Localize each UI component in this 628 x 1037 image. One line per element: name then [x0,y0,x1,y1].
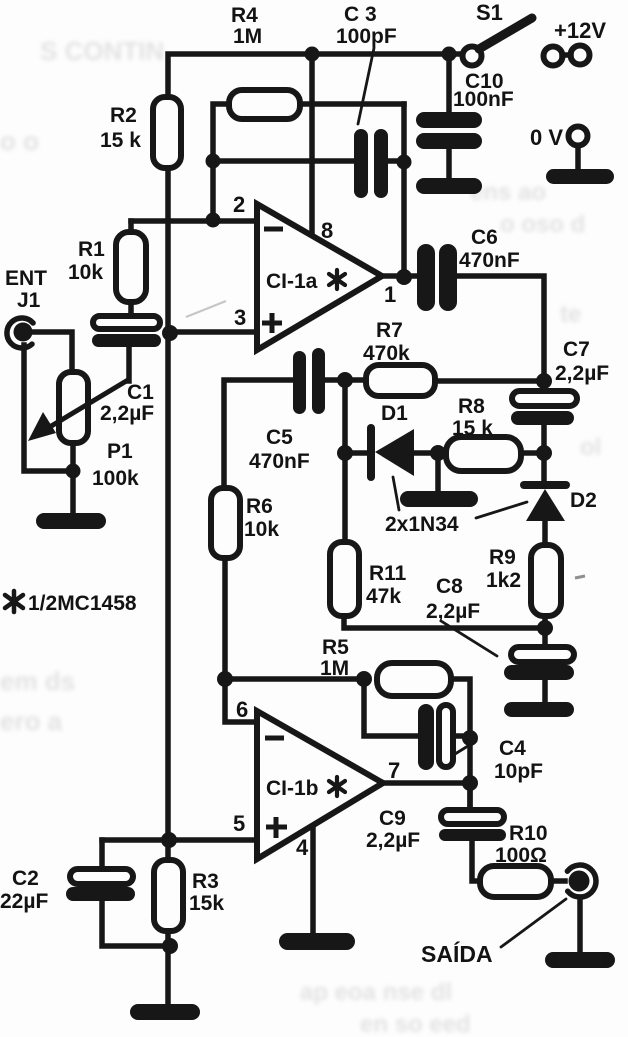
svg-text:0 V: 0 V [530,125,563,150]
svg-text:C5: C5 [266,426,293,449]
wire R3 bottom to ground [165,931,171,1006]
potentiometer P1 [28,372,139,490]
node junction C3 right [397,155,412,170]
node junction at pin8 tap [305,47,320,62]
resistor R6 [211,488,240,558]
svg-text:C1: C1 [127,381,154,404]
svg-text:C4: C4 [499,737,526,760]
resistor R5 [377,663,451,696]
node junction R7/C6/C7 [536,373,552,389]
node junction D1 anode / ground stub [430,445,446,461]
wire ground stub [435,453,441,492]
wire inverting node to C3 left plate [213,158,354,164]
svg-text:C7: C7 [563,338,590,361]
svg-text:em ds: em ds [0,666,75,696]
node junction R8/C7/D2 [536,445,552,461]
svg-text:15 k: 15 k [100,129,141,152]
wire R8 right [521,450,544,456]
wire R11 bottom to node [344,616,545,628]
wire J1 sleeve to ground node [24,345,73,471]
artifact faint pencil line near pin3 [186,301,226,317]
svg-text:ero a: ero a [0,706,63,736]
ground input [36,513,106,529]
pointer label to D2 [476,502,527,518]
artifact small dash near R9 [575,576,585,578]
capacitor C9 [366,807,506,852]
pointer SAIDA to jack [501,899,566,947]
wire C3 right plate to output column [388,158,404,164]
wire rectifier left column [342,380,348,542]
wire pin8 supply line [309,54,315,237]
capacitor C3 [336,3,397,198]
svg-text:7: 7 [388,758,400,783]
wire P1 bottom [70,443,76,471]
svg-text:R7: R7 [376,319,403,342]
resistor R4 [229,90,300,119]
node junction R5 left [356,671,372,687]
node junction pin7 [462,775,478,791]
wire C5 right [325,377,345,383]
svg-text:100pF: 100pF [336,25,397,48]
capacitor C1 [92,316,161,425]
capacitor C2 [0,867,135,913]
wire R6 bottom to pin6 [225,558,254,722]
op-amp CI-1b [257,711,383,859]
wire pin6 node to R5 [225,676,364,682]
svg-text:10pF: 10pF [494,760,543,783]
svg-text:100nF: 100nF [453,88,514,111]
op-amp CI-1a [257,204,382,350]
svg-text:R3: R3 [192,870,219,893]
svg-text:ENT: ENT [5,267,47,290]
svg-text:100Ω: 100Ω [495,844,547,867]
jack J1 [5,267,47,348]
resistor R2 [153,97,181,168]
ground below 0V [546,169,614,184]
svg-text:470k: 470k [363,342,410,365]
pointer C3 [358,48,374,124]
ground below C10 [416,178,482,194]
node junction C5/R7 [337,372,353,388]
svg-text:ol: ol [580,434,601,461]
wire R4 left lead down to inverting node [213,104,229,162]
svg-text:R2: R2 [110,104,137,127]
capacitor C5 [249,348,325,473]
svg-text:1M: 1M [233,25,262,48]
ground rectifier [400,491,478,507]
svg-text:22µF: 22µF [0,890,48,913]
wire C6 to C7 column [457,276,544,391]
resistor R8 [446,437,521,471]
svg-text:1: 1 [384,282,396,307]
svg-text:P1: P1 [107,440,133,463]
svg-text:D2: D2 [570,489,597,512]
svg-text:+12V: +12V [554,18,606,43]
terminal +12V plug [544,18,607,66]
capacitor C6 [417,226,520,311]
svg-text:1M: 1M [320,657,349,680]
svg-text:2: 2 [233,192,245,217]
svg-text:C2: C2 [12,867,39,890]
label footnote [5,591,137,615]
node junction P1/J1 ground [66,464,81,479]
svg-text:en so eed: en so eed [360,1011,471,1037]
svg-text:3: 3 [234,305,246,330]
wire R7 left [345,377,366,383]
svg-text:10k: 10k [244,518,279,541]
svg-text:R8: R8 [458,395,485,418]
svg-text:470nF: 470nF [459,249,520,272]
svg-text:C6: C6 [471,226,498,249]
wire pin7 to C9 [467,783,473,810]
resistor R3 [154,860,183,931]
wire R4 right lead to output column [300,101,404,107]
svg-text:J1: J1 [17,289,41,312]
wire C2 bottom [102,901,168,946]
svg-text:R11: R11 [369,562,407,585]
svg-text:R6: R6 [246,495,273,518]
wire J1 tip to P1 top [31,332,72,372]
ground pin4 [279,933,355,950]
wire jack to ground [577,897,583,953]
node junction pin1 output [396,269,412,285]
wire C7 bottom to rectifier node [541,425,547,481]
capacitor C8 [426,575,574,680]
svg-text:R9: R9 [489,546,516,569]
wire pin2 horizontal to op-amp and left to R1 [131,218,254,224]
wire C2 left branch [99,840,105,869]
svg-text:C9: C9 [379,807,406,830]
jack output [567,865,596,897]
pointer D1 to label [393,477,399,510]
svg-text:o oso d: o oso d [500,211,585,238]
ground main [130,1004,200,1020]
node junction pin3 bias [162,325,178,341]
svg-text:470nF: 470nF [249,450,310,473]
resistor R7 [366,365,435,396]
resistor R11 [330,542,359,616]
ground output [545,952,615,968]
svg-text:C 3: C 3 [344,3,377,26]
node junction R3/C2 [162,938,178,954]
svg-text:SAÍDA: SAÍDA [421,940,493,967]
svg-text:R4: R4 [231,4,258,27]
svg-text:47k: 47k [366,585,401,608]
node junction inverting/R4 [206,154,221,169]
wire R7 right [435,378,544,384]
node junction pin6/R5 [217,671,233,687]
diode D1 [345,402,446,477]
svg-text:15 k: 15 k [452,417,493,440]
capacitor C10 [416,54,514,180]
wire pin7 output [383,780,470,786]
wire R1 top lead [128,221,134,232]
capacitor C7 [511,338,609,425]
node junction pin2 [206,213,221,228]
svg-text:te: te [560,301,581,328]
svg-text:CI-1b: CI-1b [266,777,319,800]
wire C8 bottom [542,680,548,703]
svg-text:10k: 10k [68,261,103,284]
wire inverting node down [210,161,216,221]
wire to input ground [70,471,76,514]
wire pin1 to C6 [382,273,417,279]
wire C4 right to column [453,733,470,739]
svg-text:D1: D1 [381,402,408,425]
svg-text:C8: C8 [436,575,463,598]
resistor R1 [116,232,146,302]
terminal 0V [530,125,588,172]
wire R9 bottom [542,616,548,648]
svg-text:2x1N34: 2x1N34 [385,513,459,536]
svg-text:15k: 15k [189,892,224,915]
ground below C8 [504,702,574,717]
svg-text:6: 6 [236,697,248,722]
svg-text:S CONTIN: S CONTIN [40,36,164,66]
node junction D1 left [337,445,353,461]
svg-text:R10: R10 [509,822,548,845]
wire top +12V rail [168,54,462,98]
svg-text:1k2: 1k2 [486,569,521,592]
svg-text:2,2µF: 2,2µF [555,362,609,385]
node junction pin5 bias [161,832,177,848]
wire pin5 [102,837,254,843]
svg-text:2,2µF: 2,2µF [426,600,480,623]
svg-text:CI-1a: CI-1a [266,270,318,293]
svg-text:8: 8 [321,218,333,243]
svg-text:2,2µF: 2,2µF [366,829,420,852]
wire bias bus vertical [165,168,171,860]
node junction at C10/S1 tap [442,47,457,62]
resistor R9 [531,545,561,616]
diode D2 [524,485,597,545]
wire R1 bottom lead [128,302,134,317]
capacitor C4 [418,704,543,783]
wire C9 bottom to R10 [472,841,480,881]
node junction C4 right [462,730,478,746]
wire C1 bottom to wiper [126,347,132,381]
wire pin3 [170,329,254,335]
wire pin4 [310,827,316,934]
svg-text:4: 4 [296,835,309,860]
wire output column from R4 down to pin1 node [401,104,407,277]
svg-text:100k: 100k [92,467,139,490]
svg-text:ap eoa nse dl: ap eoa nse dl [300,979,452,1006]
wire C5 left to R6 branch [224,380,293,488]
wire C4 branch left [364,679,418,736]
svg-text:R5: R5 [322,636,349,659]
svg-text:2,2µF: 2,2µF [100,402,154,425]
svg-text:R1: R1 [78,238,105,261]
svg-text:o o: o o [0,126,39,156]
svg-text:5: 5 [233,811,245,836]
resistor R10 [480,866,551,897]
switch S1 [463,0,533,66]
svg-text:1/2MC1458: 1/2MC1458 [28,592,137,615]
wire R5 right to output column [451,679,470,810]
svg-text:S1: S1 [476,0,503,25]
wire R10 to jack [551,878,565,884]
node junction R9/R11/C8 [537,620,553,636]
